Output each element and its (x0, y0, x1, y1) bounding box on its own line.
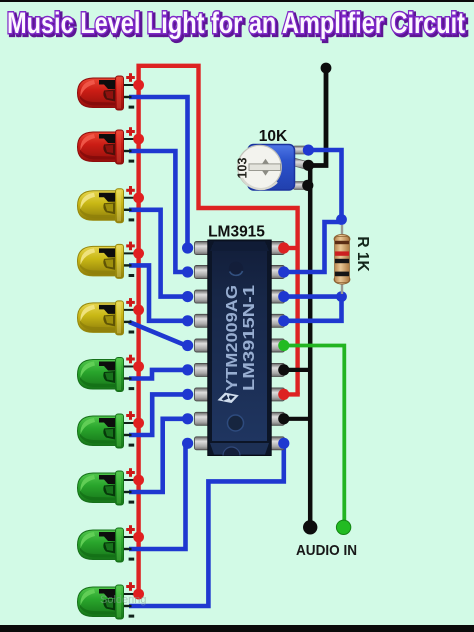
IC bottom notch (228, 415, 244, 431)
wire blue LED8 cathode to pin L8 (129, 419, 185, 492)
wire blue LED2 cathode to pin L2 (129, 151, 185, 272)
IC body (208, 240, 271, 456)
LED D6 green (78, 355, 138, 392)
svg-text:LM3915: LM3915 (208, 224, 265, 241)
LED D7 green (78, 411, 138, 448)
wire black pin6 stub (284, 368, 311, 372)
IC logo (218, 393, 239, 403)
wire blue pin R3 to R1K bottom node (284, 294, 342, 299)
wire blue LED4 cathode to pin L4 (129, 265, 185, 320)
svg-text:R 1K: R 1K (354, 236, 371, 272)
svg-text:YTM2009AG: YTM2009AG (224, 285, 241, 391)
wire blue R1K bottom node to pin R4 (284, 297, 342, 321)
LED D10 green (78, 582, 138, 619)
wire red V+ rail (139, 66, 298, 594)
IC pin node dots right R1-R9 (278, 242, 289, 449)
LED D4 yellow (78, 242, 138, 279)
resistor R1K (334, 225, 350, 294)
wire blue LED3 cathode to pin L3 (129, 210, 185, 297)
LED D1 red (78, 73, 138, 110)
wire blue LED10 cathode to pin R9 (129, 443, 284, 606)
node audio ground terminal (303, 520, 317, 534)
wire red pin18 stub (284, 246, 298, 250)
node LED junction dots on V+ rail (133, 80, 144, 600)
wire blue pin R2 to pot top (284, 222, 342, 272)
right pins R1-R9 (270, 242, 285, 450)
bottom letterbox bar (0, 625, 474, 632)
wire blue LED7 cathode to pin L7 (129, 394, 185, 435)
potentiometer VR1 10K (236, 145, 307, 191)
wire black probe top to pot wiper (309, 68, 327, 166)
wire blue LED1 cathode to pin L1 (129, 97, 188, 248)
svg-text:Music Level Light for an Ampli: Music Level Light for an Amplifier Circu… (7, 7, 465, 40)
LED D8 green (78, 468, 138, 505)
LED D2 red (78, 127, 138, 164)
wire blue LED9 cathode to pin L9 (129, 443, 186, 549)
IC top notch (229, 262, 243, 276)
node pot top pin (303, 145, 314, 156)
node pot bottom pin (302, 180, 313, 191)
wire green pin R5 to audio input (284, 346, 345, 524)
svg-text:Soldering: Soldering (100, 594, 146, 606)
LED D5 yellow (78, 298, 138, 335)
wire black audio ground vertical (308, 166, 313, 524)
top letterbox bar (0, 0, 474, 2)
wire black pin4 stub (284, 417, 311, 421)
svg-text:103: 103 (236, 158, 250, 179)
op-amp IC LM3915 U1 (195, 240, 285, 456)
wire blue LED6 cathode to pin L6 (129, 370, 185, 379)
LED D3 yellow (78, 186, 138, 223)
node pot wiper pin (303, 160, 314, 171)
svg-text:LM3915N-1: LM3915N-1 (241, 285, 258, 391)
svg-text:10K: 10K (259, 128, 288, 145)
LED D9 green (78, 525, 138, 562)
svg-text:AUDIO IN: AUDIO IN (296, 542, 357, 559)
IC pin node dots left L1-L9 (182, 242, 193, 449)
node top probe terminal (321, 63, 332, 74)
node R1K top junction (336, 214, 347, 225)
wire blue LED5 cathode diagonal to pin L5 (129, 322, 186, 346)
node audio signal terminal (336, 520, 350, 534)
left pins L1-L9 (195, 242, 210, 450)
wire red pin12 stub (284, 392, 300, 396)
wire blue pot top pin to node (309, 150, 342, 220)
node R1K bottom junction (336, 291, 347, 302)
